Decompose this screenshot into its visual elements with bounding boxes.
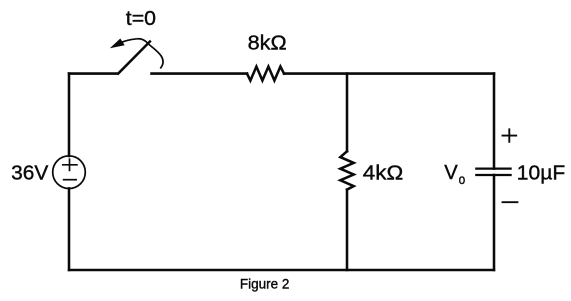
voltage source plus sign bbox=[63, 159, 77, 170]
wire right vertical lower (capacitor bottom plate to corner) bbox=[493, 175, 496, 270]
wire top horizontal (8k resistor to top-right corner) bbox=[284, 72, 494, 75]
voltage source minus sign bbox=[64, 179, 77, 181]
svg-text:t=0: t=0 bbox=[126, 7, 156, 30]
switch arrowhead bbox=[110, 39, 125, 49]
svg-text:10µF: 10µF bbox=[517, 161, 566, 184]
capacitor polarity plus sign bbox=[503, 129, 517, 142]
capacitor polarity minus sign bbox=[503, 201, 518, 203]
capacitor C 10uF top plate bbox=[476, 168, 510, 170]
wire top horizontal (switch right contact to 8k resistor) bbox=[152, 72, 248, 75]
svg-text:V: V bbox=[444, 161, 458, 184]
resistor R 8k ohm zigzag bbox=[247, 67, 284, 81]
wire bottom horizontal bbox=[69, 269, 494, 272]
wire right vertical upper (corner to capacitor top plate) bbox=[493, 74, 496, 169]
switch opening arc bbox=[123, 39, 163, 68]
voltage source V1 circle bbox=[53, 156, 86, 189]
svg-text:8kΩ: 8kΩ bbox=[248, 31, 287, 54]
svg-text:Figure 2: Figure 2 bbox=[240, 275, 290, 291]
svg-text:36V: 36V bbox=[11, 162, 49, 185]
wire middle branch upper (top node to 4k resistor) bbox=[346, 74, 349, 152]
resistor R 4k ohm zigzag bbox=[340, 151, 353, 189]
capacitor C 10uF bottom plate bbox=[476, 174, 510, 176]
svg-text:o: o bbox=[459, 172, 466, 187]
switch blade (open, from left contact up-right) bbox=[118, 42, 150, 74]
svg-text:4kΩ: 4kΩ bbox=[363, 161, 404, 184]
wire left vertical lower (source circle bottom to bottom-left corner) bbox=[68, 188, 71, 270]
wire middle branch lower (4k resistor to bottom node) bbox=[346, 190, 349, 270]
wire top-left horizontal (source top to switch left contact) bbox=[69, 72, 117, 75]
wire left vertical upper (corner to source circle top) bbox=[68, 74, 71, 156]
